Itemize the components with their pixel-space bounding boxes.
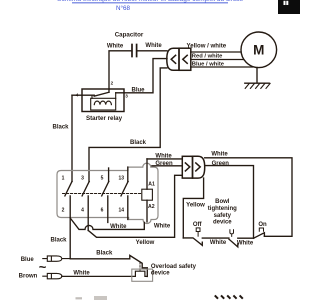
wire white brown-bullet to overload element xyxy=(62,271,148,276)
svg-text:Red / white: Red / white xyxy=(192,54,223,60)
capacitor C1 plates xyxy=(132,45,137,57)
connector X1 chevron left xyxy=(171,55,175,63)
svg-text:White: White xyxy=(73,271,90,277)
motor M circle xyxy=(241,32,277,68)
svg-text:13: 13 xyxy=(119,176,125,182)
wire green connector X2 to junction xyxy=(205,166,254,238)
svg-text:safety: safety xyxy=(214,213,232,219)
svg-text:Blue: Blue xyxy=(131,87,145,93)
svg-text:Black: Black xyxy=(96,251,113,257)
connector X2 chevron left xyxy=(185,163,189,171)
svg-text:1: 1 xyxy=(62,176,65,182)
connector X2 chevron right xyxy=(196,163,200,171)
connector X2 box xyxy=(182,156,192,178)
svg-text:N°68: N°68 xyxy=(116,4,131,12)
svg-text:White: White xyxy=(107,43,124,49)
svg-text:5: 5 xyxy=(101,176,104,182)
connector X1 D-shell xyxy=(167,48,179,70)
svg-text:Yellow: Yellow xyxy=(136,240,155,246)
svg-text:M: M xyxy=(253,43,264,58)
wire yellow/white to motor xyxy=(191,51,241,53)
svg-text:Off: Off xyxy=(193,222,203,228)
starter relay coil stubs xyxy=(92,93,116,99)
contactor mechanical dashed link xyxy=(63,193,142,195)
motor ground xyxy=(245,68,270,89)
starter relay pin4 wire + switch blade xyxy=(72,92,109,96)
svg-text:Brown: Brown xyxy=(19,274,38,280)
limit switch blade xyxy=(229,238,254,247)
contactor pole 5-6 top stub xyxy=(108,168,110,181)
wire red/white to motor xyxy=(191,59,244,61)
contactor pole 13-14 top stub xyxy=(127,167,129,181)
overload trip dashes xyxy=(139,263,141,272)
connector X2 D-shell xyxy=(193,156,205,178)
svg-text:device: device xyxy=(151,271,170,277)
svg-text:14: 14 xyxy=(119,208,125,214)
svg-text:Black: Black xyxy=(130,140,147,146)
svg-text:White: White xyxy=(154,223,171,229)
wire white connector X2 right to On switch xyxy=(205,158,292,237)
svg-text:A1: A1 xyxy=(148,181,155,187)
svg-text:2: 2 xyxy=(62,208,65,214)
logo black square top-right xyxy=(278,0,300,14)
starter relay coil zigzag xyxy=(94,101,111,104)
svg-text:Black: Black xyxy=(50,238,67,244)
svg-text:Starter relay: Starter relay xyxy=(86,115,123,122)
bottom bus + Off blade xyxy=(183,238,229,245)
wire yellow connector X2 bottom to Off switch xyxy=(183,178,203,238)
contactor pole 3-4 blade and stubs xyxy=(82,181,89,230)
overload safety device box (gray) xyxy=(132,269,153,281)
svg-text:Blue: Blue xyxy=(21,257,35,263)
svg-text:Capacitor: Capacitor xyxy=(115,32,144,39)
svg-text:device: device xyxy=(213,220,232,226)
svg-text:3: 3 xyxy=(125,93,128,98)
contactor coil bottom vertical A2 xyxy=(146,200,148,222)
svg-text:Green: Green xyxy=(155,161,173,167)
wire blue/white to motor xyxy=(191,66,253,68)
On switch blade xyxy=(254,233,265,239)
svg-text:Green: Green xyxy=(212,161,230,167)
svg-text:Blue / white: Blue / white xyxy=(192,62,225,68)
wire black pole2 junction to overload switch xyxy=(70,255,147,276)
svg-text:Black: Black xyxy=(52,125,69,131)
svg-text:4: 4 xyxy=(81,208,84,214)
svg-text:White: White xyxy=(237,240,254,246)
wire white bus pole2 to A2 bump (with hop) xyxy=(70,218,144,229)
svg-text:Yellow / white: Yellow / white xyxy=(187,43,227,50)
contactor coil feed vertical A1 xyxy=(146,159,148,189)
contactor pole 1-2 blade and stubs xyxy=(65,181,72,258)
connector X1 chevron right xyxy=(183,55,187,63)
connector X1 box xyxy=(179,48,191,70)
Off pushbutton xyxy=(196,228,200,232)
wire capacitor left xyxy=(109,51,131,93)
svg-text:Yellow: Yellow xyxy=(186,203,205,209)
svg-text:2: 2 xyxy=(111,81,114,86)
svg-text:White: White xyxy=(210,240,227,246)
On pushbutton xyxy=(259,228,263,231)
svg-text:A2: A2 xyxy=(148,204,155,210)
svg-text:tightening: tightening xyxy=(208,206,237,212)
svg-text:White: White xyxy=(110,224,127,230)
bullet connector brown xyxy=(43,273,62,278)
svg-text:~: ~ xyxy=(39,260,47,275)
svg-text:Overload safety: Overload safety xyxy=(151,264,197,270)
bullet connector blue xyxy=(43,256,70,261)
contactor coil box xyxy=(142,189,153,200)
wire yellow pole4 to connector X2 xyxy=(88,175,182,237)
svg-text:3: 3 xyxy=(81,176,84,182)
svg-text:Schema electrique du robot mot: Schema electrique du robot moteur et cab… xyxy=(57,0,243,3)
svg-text:6: 6 xyxy=(101,208,104,214)
wire white contactor to connector X2 xyxy=(147,158,182,160)
svg-text:On: On xyxy=(258,222,267,228)
svg-text:4: 4 xyxy=(76,93,79,98)
bowl limit switch probe xyxy=(230,230,234,237)
starter relay coil box xyxy=(91,98,116,110)
svg-text:Bowl: Bowl xyxy=(215,199,230,205)
bottom cut-off marks xyxy=(76,295,243,300)
title link (cut off at top) xyxy=(57,0,243,3)
svg-text:White: White xyxy=(155,153,172,159)
starter relay K outer box xyxy=(82,89,124,112)
wire green contactor to connector X2 xyxy=(152,165,182,167)
wire capacitor right to connector xyxy=(137,50,167,52)
svg-text:White: White xyxy=(145,43,162,49)
contactor pole 5-6 blade and bottom stub xyxy=(102,181,109,222)
svg-text:White: White xyxy=(211,151,228,157)
wire black relay pin4 down to contactor pole 1 xyxy=(71,95,73,181)
contactor pole 13-14 blade and bottom stub xyxy=(121,181,128,219)
wire blue relay pin3 to connector xyxy=(116,59,167,93)
contactor KM1 body outline (gray) xyxy=(57,163,158,223)
wire connector pin C black down xyxy=(89,68,167,181)
